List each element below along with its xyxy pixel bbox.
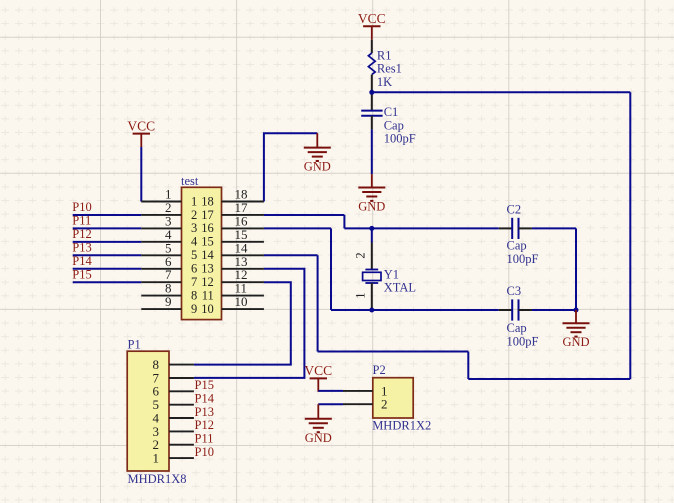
wire test pin12 to P1 pin8 xyxy=(194,282,291,364)
svg-text:GND: GND xyxy=(562,335,589,349)
ground GND (bottom, to P2 pin2) xyxy=(305,404,332,445)
pin 6 of P1 xyxy=(153,384,194,399)
wire net P12 to test pin4 xyxy=(73,241,142,243)
pin 5 of P1 xyxy=(153,397,194,412)
node junction XTAL pin1 xyxy=(369,308,374,313)
pin 8 of test (left) xyxy=(141,281,197,303)
svg-text:VCC: VCC xyxy=(127,118,155,133)
svg-text:9: 9 xyxy=(165,294,172,309)
svg-text:2: 2 xyxy=(381,397,388,412)
pin 2 of P1 xyxy=(153,437,194,452)
svg-text:1K: 1K xyxy=(377,75,392,89)
wire RST net top horizontal xyxy=(372,91,631,93)
svg-text:9: 9 xyxy=(191,302,197,316)
svg-text:XTAL: XTAL xyxy=(384,281,416,295)
svg-text:P14: P14 xyxy=(195,391,215,405)
IC U-test body xyxy=(182,187,222,319)
wire pin17 horizontal xyxy=(264,214,345,216)
power VCC (top, net to R1) xyxy=(358,11,386,40)
wire pin16 vertical down xyxy=(330,228,332,310)
capacitor C3 xyxy=(512,299,518,320)
pin 2 of test (left) xyxy=(141,200,197,222)
pin 13 of test (right) xyxy=(201,254,264,276)
svg-text:Y1: Y1 xyxy=(384,267,399,281)
wire C1 to GND xyxy=(371,129,373,174)
ground GND (right, crystal caps) xyxy=(562,310,589,349)
svg-text:P11: P11 xyxy=(72,214,91,228)
wire test pin13 to P1 pin7 xyxy=(194,269,305,378)
wire test pin18 to GND xyxy=(264,133,317,201)
svg-text:VCC: VCC xyxy=(358,11,386,26)
pin 14 of test (right) xyxy=(201,240,264,262)
wire XTAL top node horizontal xyxy=(344,227,498,229)
svg-text:P12: P12 xyxy=(195,418,214,432)
power VCC (bottom, to P2 pin1) xyxy=(304,363,332,392)
svg-text:P12: P12 xyxy=(72,227,91,241)
svg-text:P13: P13 xyxy=(72,240,91,254)
svg-text:10: 10 xyxy=(201,302,214,316)
pin 16 of test (right) xyxy=(201,213,264,235)
wire RST net bottom horizontal xyxy=(468,378,630,380)
label C3 designator/type/value xyxy=(507,284,539,348)
svg-text:11: 11 xyxy=(202,288,214,302)
ground GND (top, from pin18) xyxy=(304,133,331,173)
svg-text:5: 5 xyxy=(191,248,197,262)
svg-text:C3: C3 xyxy=(507,284,522,298)
wire RST net to pin14 vertical xyxy=(317,255,319,351)
svg-text:1: 1 xyxy=(354,292,368,298)
svg-text:2: 2 xyxy=(354,252,368,258)
svg-text:P15: P15 xyxy=(72,267,91,281)
svg-text:R1: R1 xyxy=(377,48,392,62)
wire C3 to GND node xyxy=(532,309,576,311)
pin 18 of test (right) xyxy=(201,187,264,209)
wire net P10 to test pin2 xyxy=(73,214,142,216)
svg-text:1: 1 xyxy=(191,194,197,208)
svg-text:7: 7 xyxy=(191,275,197,289)
pin 3 of P1 xyxy=(153,424,194,439)
wire VCC to test pin1 xyxy=(140,147,142,202)
svg-text:100pF: 100pF xyxy=(507,334,539,348)
svg-text:1: 1 xyxy=(153,450,160,465)
wire RST net jog vertical xyxy=(467,352,469,380)
svg-text:P2: P2 xyxy=(373,363,386,377)
resistor R1 xyxy=(368,53,375,75)
connector P1 body xyxy=(127,351,169,471)
pin 15 of test (right) xyxy=(201,227,264,249)
svg-text:8: 8 xyxy=(191,288,197,302)
wire RST net to pin14 horizontal xyxy=(264,254,318,256)
wire RST net middle horizontal xyxy=(318,351,469,353)
wire pin17 step down xyxy=(343,215,345,228)
svg-text:Res1: Res1 xyxy=(377,62,402,76)
node junction C2/C3/GND xyxy=(574,308,579,313)
wire C2 to GND branch xyxy=(532,227,576,229)
label R1 designator/type/value xyxy=(377,48,402,89)
pin 7 of test (left) xyxy=(141,267,197,289)
node junction XTAL pin2 xyxy=(369,226,374,231)
wire XTAL pin2 vertical xyxy=(371,228,373,242)
svg-text:MHDR1X8: MHDR1X8 xyxy=(128,472,187,486)
wire net P11 to test pin3 xyxy=(73,227,142,229)
svg-text:test: test xyxy=(181,174,199,188)
svg-text:17: 17 xyxy=(201,208,214,222)
pin 6 of test (left) xyxy=(141,254,197,276)
svg-text:VCC: VCC xyxy=(304,363,332,378)
wire C2 branch vertical to GND node xyxy=(575,228,577,310)
capacitor C2 xyxy=(512,218,518,239)
svg-text:6: 6 xyxy=(191,262,197,276)
svg-text:100pF: 100pF xyxy=(384,132,416,146)
pin 12 of test (right) xyxy=(201,267,264,289)
svg-text:GND: GND xyxy=(304,160,331,174)
wire net P14 to test pin6 xyxy=(73,268,142,270)
pin 10 of test (right) xyxy=(201,294,264,316)
wire R1 pin1 stub xyxy=(371,40,373,53)
svg-text:Cap: Cap xyxy=(384,118,404,132)
svg-text:GND: GND xyxy=(358,200,385,214)
wire C3 pin2 stub xyxy=(519,309,532,311)
wire C2 pin1 stub xyxy=(499,227,512,229)
wire Y1 pin2 stub xyxy=(371,243,373,270)
wire Y1 pin1 stub xyxy=(371,283,373,310)
label C1 designator/type/value xyxy=(384,105,416,146)
connector P2 body xyxy=(373,378,413,418)
crystal Y1 xyxy=(363,270,381,284)
pin 17 of test (right) xyxy=(201,200,264,222)
wire net P13 to test pin5 xyxy=(73,254,142,256)
wire GND to P2 pin2 xyxy=(318,403,343,405)
label Y1 designator/type xyxy=(384,267,416,294)
svg-text:P10: P10 xyxy=(72,200,91,214)
wire net P15 to test pin7 xyxy=(73,281,142,283)
svg-text:15: 15 xyxy=(201,235,214,249)
svg-text:P10: P10 xyxy=(195,445,214,459)
power VCC (left, to test pin1) xyxy=(127,118,155,147)
svg-text:14: 14 xyxy=(201,248,214,262)
wire pin16 horizontal xyxy=(264,227,331,229)
pin 11 of test (right) xyxy=(202,281,264,303)
pin 1 of test (left) xyxy=(141,187,197,209)
wire XTAL bottom node horizontal xyxy=(331,309,499,311)
svg-text:2: 2 xyxy=(191,208,197,222)
svg-text:Cap: Cap xyxy=(507,321,527,335)
pin 4 of P1 xyxy=(153,410,194,425)
ground GND (below C1) xyxy=(358,174,385,213)
svg-text:12: 12 xyxy=(201,275,214,289)
pin 9 of test (left) xyxy=(141,294,197,316)
svg-text:P15: P15 xyxy=(195,378,214,392)
pin 1 of P2 xyxy=(343,383,388,398)
svg-text:100pF: 100pF xyxy=(507,252,539,266)
svg-text:P13: P13 xyxy=(195,405,214,419)
svg-text:3: 3 xyxy=(191,221,197,235)
wire R1 pin2 to C1 pin1 xyxy=(371,75,373,110)
pin 7 of P1 xyxy=(153,370,194,385)
svg-text:16: 16 xyxy=(201,221,214,235)
svg-text:P11: P11 xyxy=(195,432,214,446)
svg-text:18: 18 xyxy=(201,194,214,208)
svg-text:Cap: Cap xyxy=(507,239,527,253)
svg-text:GND: GND xyxy=(305,431,332,445)
wire C3 pin1 stub xyxy=(499,309,512,311)
svg-text:C1: C1 xyxy=(384,105,399,119)
pin 2 of P2 xyxy=(343,397,388,412)
wire VCC to P2 pin1 xyxy=(318,390,343,392)
svg-text:10: 10 xyxy=(235,294,248,309)
pin 3 of test (left) xyxy=(141,213,197,235)
node junction R1/C1/RST net xyxy=(369,90,374,95)
svg-text:MHDR1X2: MHDR1X2 xyxy=(372,419,431,433)
capacitor C1 xyxy=(361,111,382,116)
wire C1 pin2 stub xyxy=(371,116,373,130)
pin 5 of test (left) xyxy=(141,240,197,262)
svg-text:13: 13 xyxy=(201,262,214,276)
wire RST net right vertical xyxy=(629,92,631,379)
svg-text:P1: P1 xyxy=(128,338,141,352)
svg-text:P14: P14 xyxy=(72,254,92,268)
pin 8 of P1 xyxy=(153,357,194,372)
pin 4 of test (left) xyxy=(141,227,198,249)
pin 1 of P1 xyxy=(153,450,194,465)
wire C2 pin2 stub xyxy=(519,227,532,229)
label C2 designator/type/value xyxy=(507,203,539,267)
svg-text:4: 4 xyxy=(191,235,198,249)
svg-text:C2: C2 xyxy=(507,203,522,217)
